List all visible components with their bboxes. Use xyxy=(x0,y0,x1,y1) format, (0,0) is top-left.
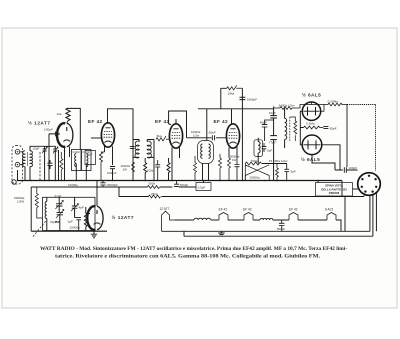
resistor 250a railC xyxy=(149,195,161,198)
input transformer L1 core xyxy=(27,152,29,166)
varicap C2 xyxy=(42,146,47,180)
svg-text:6 AL5: 6 AL5 xyxy=(325,208,333,212)
wire B+ down xyxy=(241,88,243,180)
svg-text:EF 42: EF 42 xyxy=(88,119,103,124)
svg-text:100pF: 100pF xyxy=(348,166,357,170)
svg-text:10000a: 10000a xyxy=(68,183,78,187)
resistor 10ka xyxy=(227,85,243,90)
IF transformer T3 shield xyxy=(198,141,214,164)
capacitor 50pF det xyxy=(322,126,328,128)
varicap 4pF xyxy=(71,197,79,217)
resistor under V4 b xyxy=(228,158,231,181)
svg-text:10000a: 10000a xyxy=(249,176,260,180)
svg-text:77pF: 77pF xyxy=(269,140,276,144)
heater line xyxy=(273,219,289,221)
svg-text:tatrice. Rivelatore e discrimi: tatrice. Rivelatore e discriminatore con… xyxy=(55,255,320,260)
input transformer L1 primary xyxy=(23,151,25,167)
box 0,5pF xyxy=(196,183,211,191)
svg-text:EF 42: EF 42 xyxy=(243,208,252,212)
capacitor 1600pF xyxy=(240,97,246,99)
capacitor 5pF out xyxy=(284,164,289,181)
varicap C3 xyxy=(49,146,58,180)
resistor 50000a 1/2W xyxy=(35,187,42,218)
trimmer 21pF upper xyxy=(55,197,63,212)
tube V1b 1/2 12AT7 oscillator xyxy=(87,206,103,230)
svg-text:3,5pF: 3,5pF xyxy=(86,153,93,157)
shielded lead dashed vertical xyxy=(375,105,377,171)
ground V1b xyxy=(91,230,97,238)
T3 secondary xyxy=(209,144,211,158)
svg-text:PIEDINI: PIEDINI xyxy=(329,191,340,195)
cluster caps under T2 xyxy=(144,158,170,181)
svg-text:1W: 1W xyxy=(232,158,237,162)
diode D1 1/2 6AL5 xyxy=(302,102,320,120)
svg-text:12 AT7: 12 AT7 xyxy=(160,207,170,211)
heater house EF42 3 xyxy=(289,213,298,221)
wire V4 cathode resistors xyxy=(229,147,237,158)
svg-text:4pF: 4pF xyxy=(79,206,84,210)
svg-text:500a: 500a xyxy=(149,181,156,185)
heater line xyxy=(211,219,219,221)
ground rail A xyxy=(17,180,342,182)
svg-text:15000a: 15000a xyxy=(70,226,81,230)
svg-text:100pF: 100pF xyxy=(44,128,53,132)
resistor osc grid xyxy=(84,207,87,231)
wire transformer returns to rail xyxy=(25,167,30,181)
shielded lead dashed horizontal xyxy=(347,104,376,106)
wire box to rail A xyxy=(203,181,205,183)
wire T2 connections xyxy=(133,140,154,181)
capacitor 100pF grid xyxy=(49,131,60,146)
heater line xyxy=(228,219,244,221)
plate coil L2 11a xyxy=(66,108,80,149)
capacitor 1pF xyxy=(75,218,81,231)
heater ground xyxy=(218,231,224,236)
capacitor under V4 xyxy=(235,158,240,181)
output socket plug xyxy=(358,173,381,196)
svg-text:½ 6AL5: ½ 6AL5 xyxy=(301,156,320,162)
svg-text:5ka: 5ka xyxy=(157,134,162,138)
heater choke 2 xyxy=(260,218,273,220)
resistor 5ka xyxy=(156,136,170,141)
svg-text:1600pF: 1600pF xyxy=(247,97,258,101)
resistor 0,25Ma xyxy=(321,103,347,111)
svg-text:1W: 1W xyxy=(123,167,128,171)
svg-text:½ 6AL5: ½ 6AL5 xyxy=(302,92,321,98)
heater house 6AL5 xyxy=(327,213,336,221)
oscillator section vertical feed xyxy=(30,187,32,231)
svg-text:61pF: 61pF xyxy=(269,111,276,115)
capacitor 500pF railB xyxy=(174,181,179,188)
resistor 500a railB xyxy=(148,186,160,189)
label box SPINA VISTA DELLA PARTE DEI PIEDINI xyxy=(316,183,359,197)
tube V4 EF42 xyxy=(226,124,239,148)
svg-text:50pF: 50pF xyxy=(209,131,216,135)
IF transformer T2 primary xyxy=(135,141,139,158)
anode loop V3 xyxy=(169,111,187,138)
wire V3 cathode xyxy=(172,148,180,181)
tube V1a 1/2 12AT7 xyxy=(57,123,73,147)
heater bottom rail E xyxy=(184,231,373,236)
resistor grid V4 xyxy=(194,156,197,181)
rail C xyxy=(119,181,364,232)
anode feed V4 xyxy=(198,88,242,140)
tube V2 EF42 xyxy=(101,123,114,147)
svg-text:21pF: 21pF xyxy=(50,220,57,224)
heater choke 1 xyxy=(194,218,211,220)
wire tube cathode down xyxy=(65,146,70,180)
capacitor 61pF xyxy=(270,116,277,118)
T3 primary xyxy=(201,144,203,158)
wire cathode V2 xyxy=(104,146,106,153)
junction dots rail A xyxy=(30,180,318,182)
trimmer 21pF lower xyxy=(55,209,64,230)
T4 secondary coil xyxy=(258,141,260,152)
coupling wire plate to grid V4 xyxy=(187,137,228,139)
wire socket leads xyxy=(370,193,377,236)
tube V3 EF42 xyxy=(169,124,182,148)
capacitor 100pF out xyxy=(344,105,357,173)
heater house 12AT7 xyxy=(162,211,176,231)
capacitor 1000pF screen xyxy=(110,167,115,181)
oscillator coil xyxy=(45,201,47,218)
IF transformer T1 box B xyxy=(82,150,92,181)
svg-text:EF 42: EF 42 xyxy=(219,208,228,212)
heater house EF42 1 xyxy=(219,213,228,221)
svg-text:10000pF: 10000pF xyxy=(106,183,118,187)
wire T4 secondary xyxy=(257,138,259,162)
IF transformer T1 box A xyxy=(72,150,82,181)
capacitor T2 left xyxy=(130,146,135,148)
svg-text:1/2W: 1/2W xyxy=(17,200,24,204)
svg-text:50pF: 50pF xyxy=(330,127,337,131)
wire V1b plate xyxy=(96,181,98,207)
svg-text:11a: 11a xyxy=(57,112,62,116)
heater line end xyxy=(336,220,341,231)
antenna input terminals xyxy=(12,146,23,185)
svg-text:5pF: 5pF xyxy=(291,169,296,173)
svg-text:EF 42: EF 42 xyxy=(289,208,298,212)
wire antenna to transformer xyxy=(20,152,23,165)
heater bottom rail D xyxy=(162,230,370,232)
anode loop V2 xyxy=(108,109,134,181)
svg-text:½ 12AT7: ½ 12AT7 xyxy=(28,120,50,126)
wire tuned grid line xyxy=(30,146,49,151)
capacitor 50pF coupling xyxy=(212,135,214,140)
wire caps column xyxy=(242,107,273,181)
resistor 0,1Ma between diodes xyxy=(304,126,323,129)
resistor T4 right xyxy=(290,117,297,141)
svg-text:1/2w: 1/2w xyxy=(193,134,200,138)
svg-text:250a: 250a xyxy=(151,192,158,196)
discriminator transformer T4 primary xyxy=(285,118,287,139)
wire screen V2 xyxy=(112,146,114,165)
heater line xyxy=(253,219,260,221)
svg-text:500pF: 500pF xyxy=(180,183,188,187)
svg-text:EF 42: EF 42 xyxy=(214,119,229,124)
svg-text:EF 42: EF 42 xyxy=(155,119,170,124)
oscillator bottom rail xyxy=(31,230,107,232)
heater house EF42 2 xyxy=(244,213,253,221)
ganged tuning dashed link xyxy=(33,220,47,237)
resistor lower vert xyxy=(276,164,279,181)
diode D2 1/2 6AL5 xyxy=(302,135,322,155)
capacitor mid xyxy=(47,160,52,169)
svg-text:3400a 1/2w: 3400a 1/2w xyxy=(279,103,296,107)
svg-text:15pF: 15pF xyxy=(32,147,39,151)
capacitor 40pF xyxy=(262,120,274,141)
svg-text:1000pF: 1000pF xyxy=(107,171,117,175)
T4 secondary frame xyxy=(254,140,263,157)
svg-text:3 10pF: 3 10pF xyxy=(72,151,80,154)
wire sec bottom junction xyxy=(258,162,287,164)
resistor under V4 a xyxy=(219,154,222,181)
svg-text:1pF: 1pF xyxy=(68,219,73,223)
svg-text:100a: 100a xyxy=(147,169,154,173)
svg-text:21pF: 21pF xyxy=(54,194,61,198)
wire node grid xyxy=(48,146,50,180)
svg-text:700a: 700a xyxy=(251,159,258,163)
wire V1b grid xyxy=(86,213,90,215)
svg-text:0,5pF: 0,5pF xyxy=(198,185,206,189)
oscillator box xyxy=(43,197,96,230)
heater line xyxy=(298,219,327,221)
T4 core dashed xyxy=(289,117,291,141)
capacitor 5pF sec xyxy=(262,143,267,152)
rail B xyxy=(31,186,196,188)
svg-text:0,1Ma: 0,1Ma xyxy=(306,121,315,125)
wire grid V2 xyxy=(91,137,101,139)
resistor 700a xyxy=(245,162,261,181)
T3 wires xyxy=(203,164,209,181)
svg-text:40pF: 40pF xyxy=(260,121,267,125)
svg-text:WATT RADIO - Mod. Sintonizzato: WATT RADIO - Mod. Sintonizzatore FM - 12… xyxy=(40,247,347,252)
wire node xyxy=(58,150,60,181)
capacitor 77pF xyxy=(270,136,277,140)
wire detector out xyxy=(262,163,287,165)
svg-text:0,25Ma: 0,25Ma xyxy=(328,99,339,103)
wire V3 top xyxy=(169,119,176,125)
IF transformer T2 secondary xyxy=(147,141,151,158)
wire T4 top xyxy=(284,108,286,148)
wire diode2 output xyxy=(312,145,343,170)
resistor R cathode xyxy=(60,152,63,181)
box 3,5pF xyxy=(85,151,96,165)
heater line left xyxy=(175,219,194,221)
resistor screen dropper xyxy=(132,162,135,172)
svg-text:500pF: 500pF xyxy=(277,227,285,231)
svg-text:5pF: 5pF xyxy=(267,148,272,152)
resistor cathode V2 xyxy=(99,152,104,181)
crossing wires X xyxy=(245,165,269,181)
capacitor 10000pF railB xyxy=(100,181,105,188)
input transformer L1 secondary xyxy=(30,151,32,167)
wire diodes left xyxy=(300,111,303,145)
resistor 3400a xyxy=(274,102,324,110)
svg-text:15 000a 1/2w: 15 000a 1/2w xyxy=(269,159,288,163)
antenna ground terminal xyxy=(12,180,16,184)
svg-text:10ka: 10ka xyxy=(228,92,235,96)
svg-text:½ 12AT7: ½ 12AT7 xyxy=(112,214,134,220)
capacitor 500pF heater xyxy=(279,220,285,231)
trimmer C 15pF dashed stem xyxy=(39,152,41,181)
